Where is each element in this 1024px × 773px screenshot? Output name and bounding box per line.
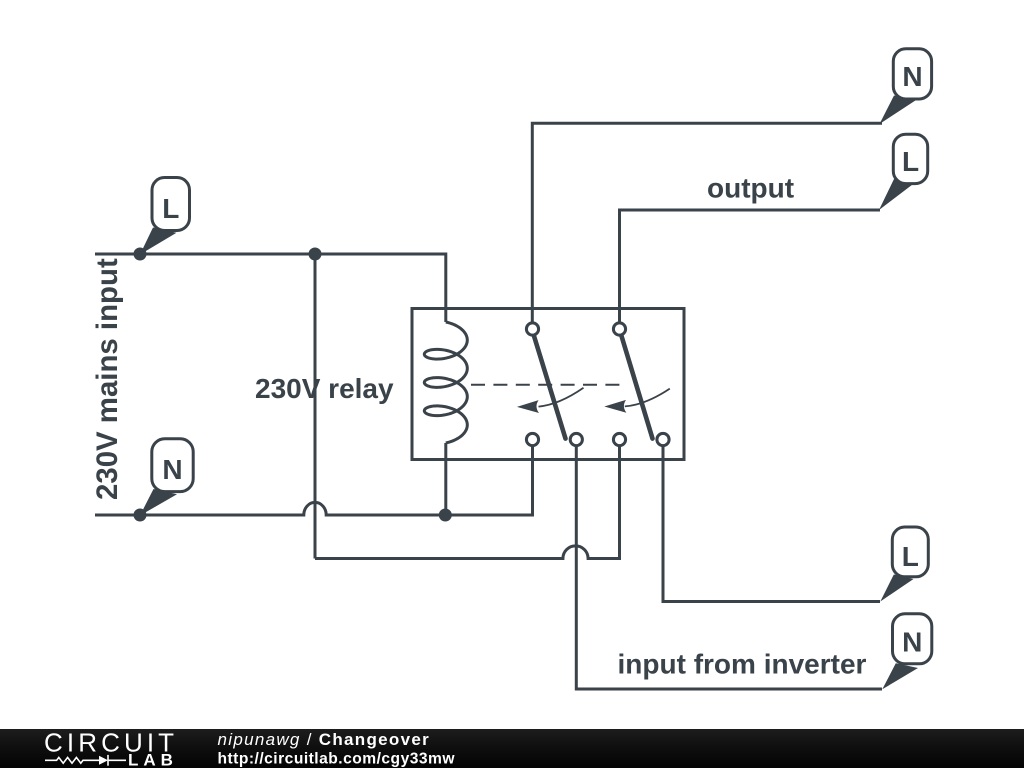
svg-text:L: L (902, 146, 919, 177)
svg-text:230V mains input: 230V mains input (91, 258, 124, 500)
svg-text:LAB: LAB (128, 751, 178, 769)
svg-text:input from inverter: input from inverter (618, 649, 867, 680)
svg-text:L: L (902, 541, 919, 572)
svg-text:output: output (707, 173, 794, 204)
svg-text:L: L (162, 193, 179, 224)
svg-text:http://circuitlab.com/cgy33mw: http://circuitlab.com/cgy33mw (218, 751, 456, 768)
svg-text:nipunawg / Changeover: nipunawg / Changeover (218, 730, 431, 749)
svg-text:N: N (162, 454, 182, 485)
svg-text:230V relay: 230V relay (255, 373, 394, 404)
svg-text:N: N (902, 61, 922, 92)
svg-text:N: N (902, 626, 922, 657)
